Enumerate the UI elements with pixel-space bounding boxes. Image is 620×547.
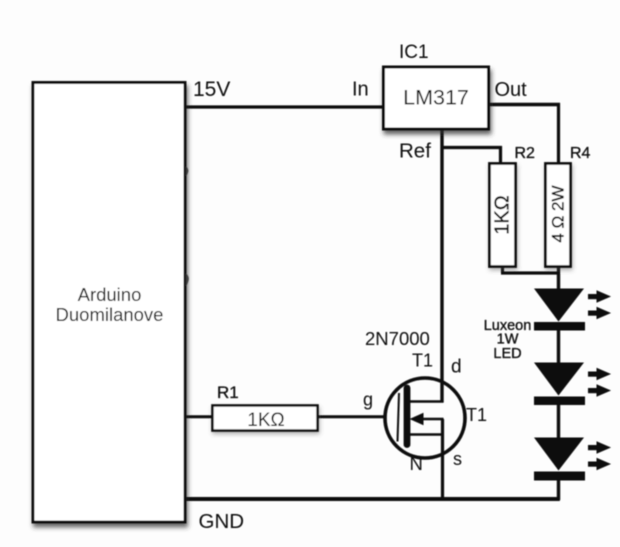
svg-text:d: d (451, 357, 462, 378)
svg-text:g: g (363, 390, 373, 410)
svg-text:2N7000: 2N7000 (365, 328, 430, 349)
svg-text:In: In (352, 79, 369, 101)
svg-text:N: N (410, 453, 423, 474)
svg-text:1KΩ: 1KΩ (247, 410, 284, 431)
svg-text:IC1: IC1 (399, 42, 429, 63)
svg-text:R4: R4 (570, 145, 591, 162)
svg-text:LM317: LM317 (403, 86, 469, 110)
svg-text:s: s (453, 449, 462, 469)
svg-text:R2: R2 (515, 145, 536, 162)
svg-text:Arduino: Arduino (78, 284, 142, 305)
svg-text:Ref: Ref (399, 140, 431, 163)
svg-text:LED: LED (493, 346, 521, 362)
svg-text:T1: T1 (466, 405, 487, 425)
svg-text:Out: Out (495, 79, 528, 101)
svg-text:Duomilanove: Duomilanove (56, 304, 164, 325)
svg-text:T1: T1 (412, 351, 433, 371)
svg-text:1KΩ: 1KΩ (492, 195, 514, 234)
svg-text:R1: R1 (217, 383, 239, 402)
svg-text:15V: 15V (193, 78, 230, 101)
svg-text:GND: GND (199, 510, 245, 533)
svg-text:4 Ω 2W: 4 Ω 2W (549, 185, 568, 242)
